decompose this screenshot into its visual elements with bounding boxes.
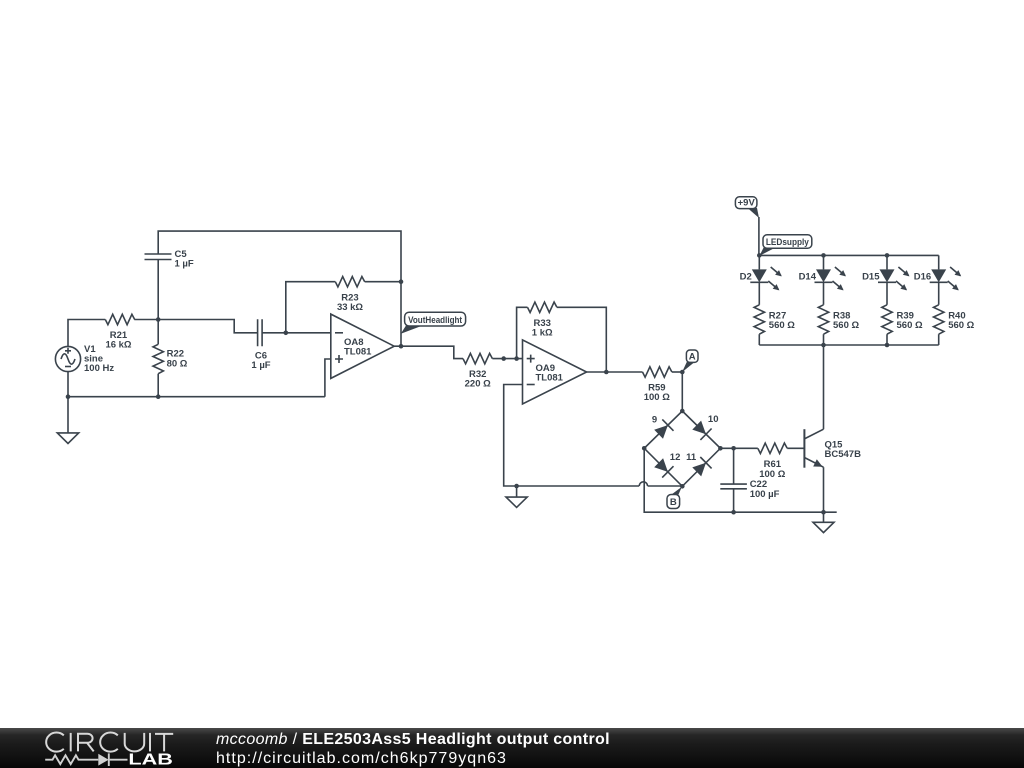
node OA8 output junction: [399, 344, 404, 349]
node ground tap: [514, 484, 519, 489]
node R22 bottom junction: [156, 394, 161, 399]
wire D2 to R27: [758, 282, 760, 305]
svg-text:220 Ω: 220 Ω: [465, 379, 491, 390]
resistor R39: [882, 305, 923, 334]
wire node up to C5: [157, 260, 159, 320]
svg-text:+9V: +9V: [738, 198, 756, 209]
svg-text:D16: D16: [914, 271, 931, 282]
svg-text:80 Ω: 80 Ω: [167, 358, 188, 369]
resistor R27: [754, 305, 795, 334]
node bottom rail D14/collector: [821, 343, 826, 348]
net flag B: [667, 487, 682, 509]
resistor R59: [643, 367, 672, 403]
wire R38 to bottom rail: [823, 334, 825, 345]
resistor R33: [528, 302, 557, 338]
wire Q15 collector up: [823, 345, 825, 429]
net flag LEDsupply: [760, 235, 812, 256]
wire node to C6 (step): [158, 320, 257, 333]
wire R21 to node: [134, 319, 158, 321]
net flag +9V: [735, 197, 759, 218]
diode 12: [654, 452, 680, 478]
resistor R21: [105, 314, 134, 350]
svg-text:10: 10: [708, 414, 719, 425]
wire R33 feedback left leg: [517, 307, 528, 358]
resistor R61: [758, 443, 787, 480]
resistor R38: [818, 305, 859, 334]
node R21/R22/C5 junction: [156, 317, 161, 322]
wire bridge right corner to R61: [720, 447, 757, 449]
node feedback/inverting input: [284, 331, 289, 336]
wire feedback left leg: [286, 282, 336, 333]
wire R39 to bottom rail: [886, 334, 888, 345]
wire OA9 output: [587, 371, 643, 373]
svg-text:LEDsupply: LEDsupply: [766, 237, 810, 248]
resistor R40: [934, 305, 975, 334]
ground OA9 loop: [506, 486, 527, 507]
node bridge bottom corner: [680, 484, 685, 489]
LED D16: [914, 255, 961, 290]
svg-text:560 Ω: 560 Ω: [833, 320, 859, 331]
node bridge left corner: [642, 446, 647, 451]
wire D15 to R39: [886, 282, 888, 305]
op-amp OA8: [331, 314, 394, 378]
ground V1: [57, 433, 78, 444]
resistor R32: [463, 353, 492, 389]
diode 10: [692, 414, 718, 440]
wire C6 to OA8 inverting input: [262, 332, 331, 334]
wire +9V down: [758, 217, 760, 255]
node OA9 output/R33 junction: [604, 370, 609, 375]
wire R61 to Q15 base: [787, 447, 804, 449]
wire OA8 noninverting input from bottom rail: [325, 359, 331, 397]
bottom rail wire: [68, 372, 325, 433]
svg-text:560 Ω: 560 Ω: [897, 320, 923, 331]
wire R23 to output leg: [365, 281, 401, 283]
wire bridge left corner down to ground rail: [644, 448, 837, 512]
node feedback/noninverting junction: [514, 356, 519, 361]
svg-text:560 Ω: 560 Ω: [769, 320, 795, 331]
node emitter/ground junction: [821, 510, 826, 515]
wire C22 top leg: [733, 448, 735, 484]
wire OA8 output: [394, 346, 463, 358]
LED D14: [799, 255, 846, 290]
transistor Q15: [804, 429, 861, 468]
svg-text:TL081: TL081: [536, 373, 564, 384]
wire D16 to R40: [938, 282, 940, 305]
node bottom rail D15: [885, 343, 890, 348]
resistor R22: [153, 344, 188, 373]
node rail D14: [821, 253, 826, 258]
wire node down to R22: [157, 320, 159, 345]
svg-text:560 Ω: 560 Ω: [948, 320, 974, 331]
LED D15: [862, 255, 909, 290]
node wire joint: [501, 356, 506, 361]
wire R32 to OA9 noninverting input: [492, 358, 522, 360]
wire Q15 emitter down: [823, 467, 825, 512]
svg-text:1 µF: 1 µF: [251, 360, 270, 371]
resistor R23: [335, 277, 364, 313]
svg-text:TL081: TL081: [344, 347, 372, 358]
wire V1 top to R21: [68, 320, 105, 347]
node C22 bottom junction: [731, 510, 736, 515]
wire C22 bottom leg: [733, 489, 735, 512]
ground Q15: [813, 512, 834, 532]
wire output rail down: [400, 282, 402, 347]
wire C5 to top rail: [158, 231, 401, 282]
wire hop over bridge leg: [639, 482, 682, 486]
net flag VoutHeadlight: [401, 312, 466, 334]
svg-text:12: 12: [670, 452, 681, 463]
voltage source V1: [55, 344, 114, 374]
diode 9: [652, 415, 674, 439]
LED bottom rail wire: [759, 344, 938, 346]
LED top rail wire: [759, 254, 938, 256]
svg-text:100 µF: 100 µF: [750, 489, 780, 500]
node bridge top corner: [680, 409, 685, 414]
svg-text:D14: D14: [799, 271, 817, 282]
svg-text:1 kΩ: 1 kΩ: [532, 327, 553, 338]
svg-text:VoutHeadlight: VoutHeadlight: [408, 315, 463, 326]
svg-text:100 Hz: 100 Hz: [84, 363, 114, 374]
svg-text:1 µF: 1 µF: [175, 259, 194, 270]
svg-text:D15: D15: [862, 271, 880, 282]
svg-text:11: 11: [686, 452, 697, 463]
wire R22 to bottom rail: [157, 374, 159, 397]
svg-text:100 Ω: 100 Ω: [644, 392, 670, 403]
node V1 bottom junction: [66, 394, 71, 399]
svg-text:A: A: [689, 351, 696, 362]
svg-text:D2: D2: [740, 271, 752, 282]
net flag A: [682, 350, 698, 372]
capacitor C5: [145, 249, 194, 270]
capacitor C22: [720, 479, 779, 500]
wire OA9 inverting input loop: [504, 385, 640, 487]
svg-text:9: 9: [652, 415, 657, 426]
node C22 top junction: [731, 446, 736, 451]
svg-text:LAB: LAB: [128, 752, 173, 768]
wire R33 right leg down to output: [557, 307, 606, 372]
node rail D15: [885, 253, 890, 258]
wire A down to bridge top: [681, 372, 683, 411]
node A junction: [680, 370, 685, 375]
node R23/output-rail junction: [399, 279, 404, 284]
svg-text:33 kΩ: 33 kΩ: [337, 302, 363, 313]
bridge diamond wires: [644, 411, 720, 486]
capacitor C6: [251, 319, 270, 371]
wire R40 to bottom rail: [938, 334, 940, 345]
wire D14 to R38: [823, 282, 825, 305]
diode 11: [686, 452, 711, 476]
svg-text:BC547B: BC547B: [825, 449, 862, 460]
svg-text:B: B: [670, 497, 677, 508]
node bridge right corner: [718, 446, 723, 451]
wire R27 to bottom rail: [758, 334, 760, 345]
wire R59 to node A: [672, 371, 682, 373]
op-amp OA9: [523, 340, 587, 404]
svg-text:16 kΩ: 16 kΩ: [105, 340, 131, 351]
LED D2: [740, 255, 782, 290]
svg-text:100 Ω: 100 Ω: [759, 469, 785, 480]
node LED supply junction: [757, 253, 762, 258]
